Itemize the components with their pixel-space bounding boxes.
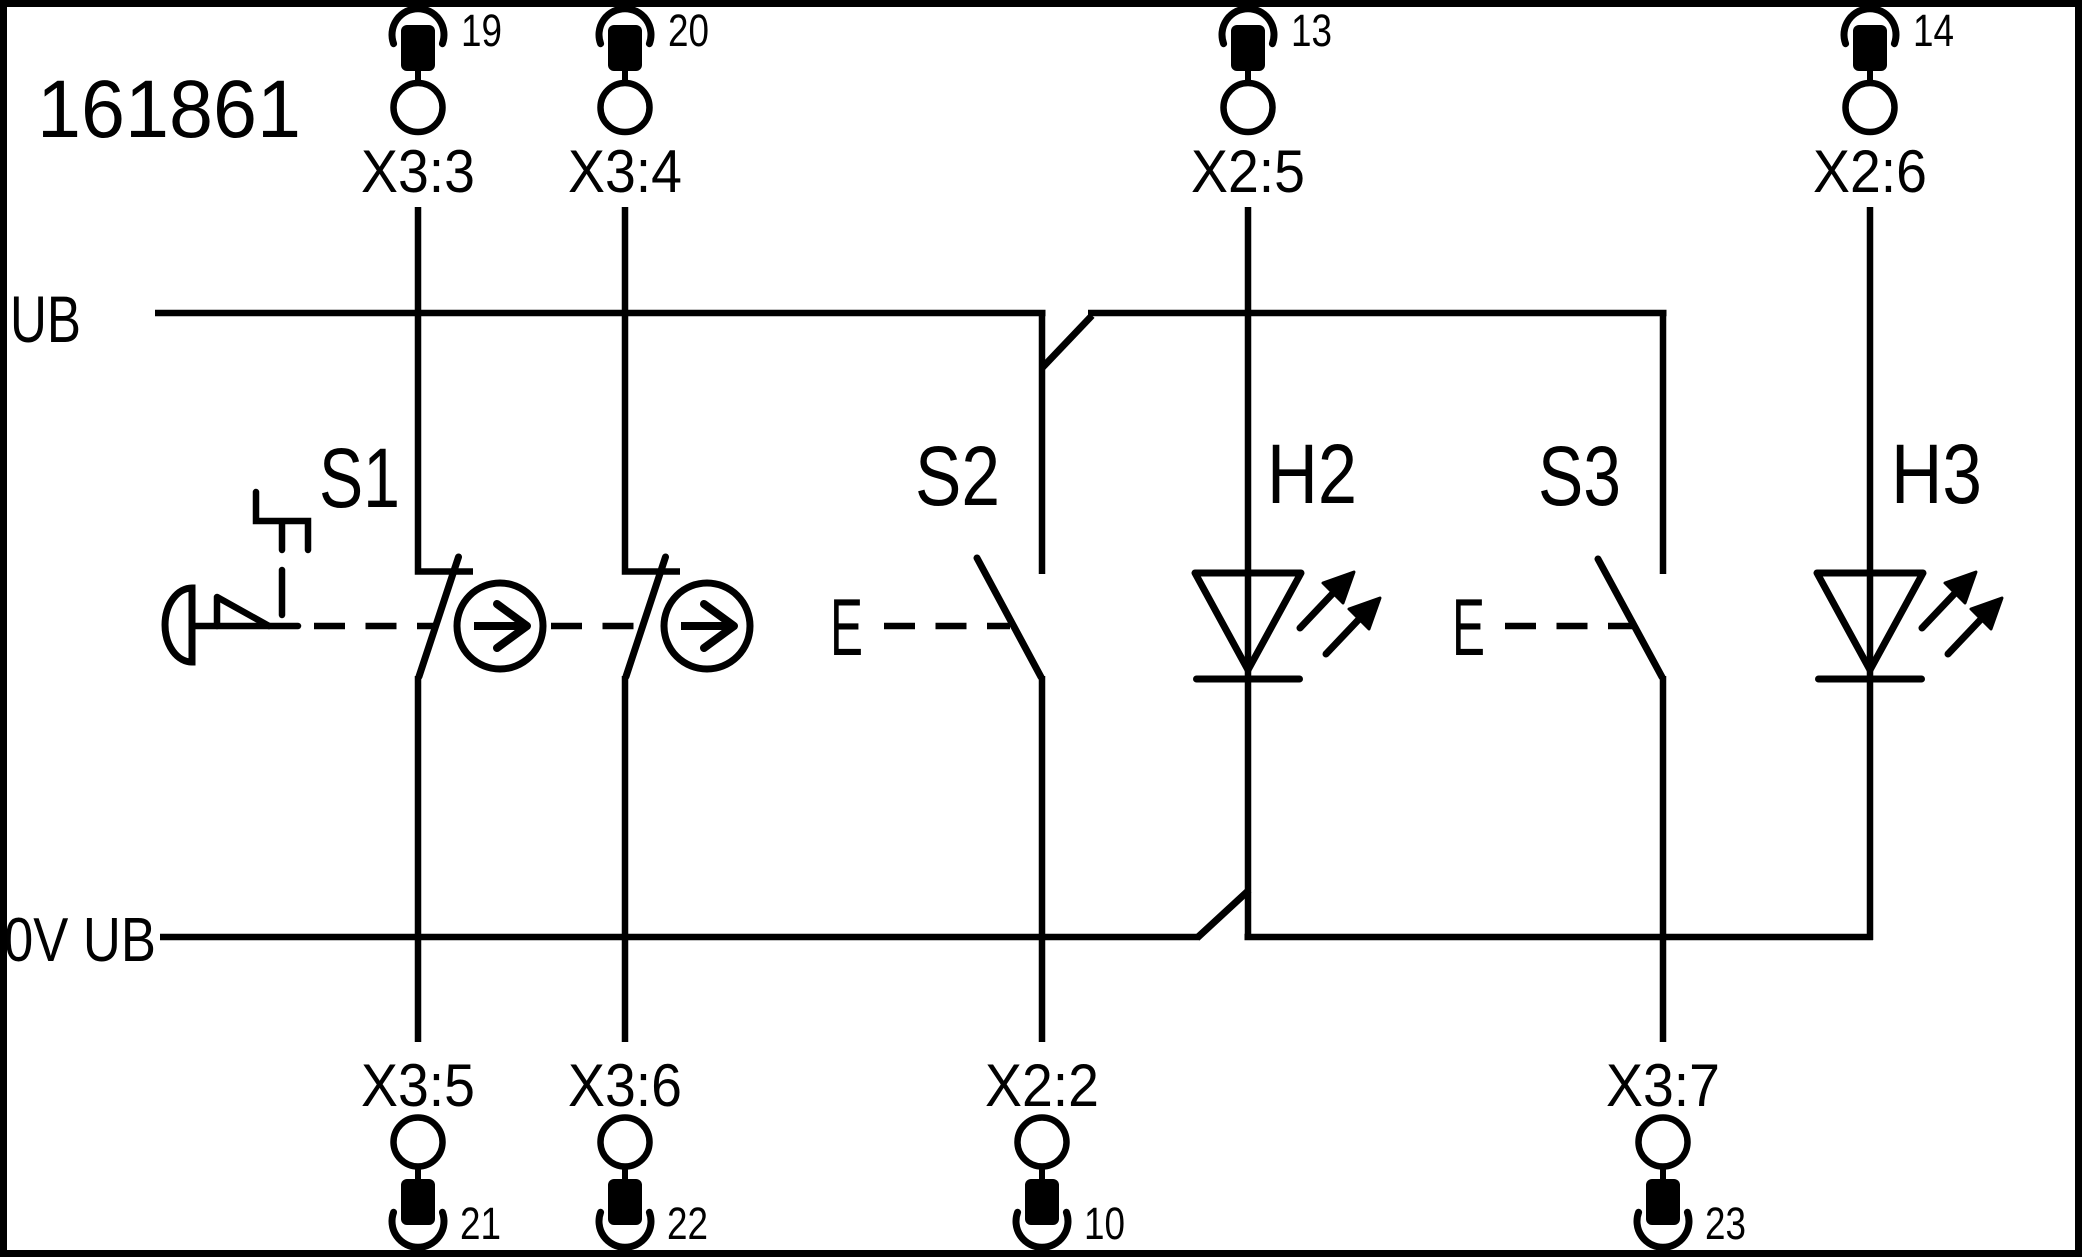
svg-text:E: E [830,583,863,673]
svg-text:0V UB: 0V UB [4,906,156,975]
S1 lever triangle [217,597,269,626]
terminal X3:4 clamp arc [599,9,651,44]
svg-text:X3:6: X3:6 [568,1052,682,1119]
wire S2 column lower to X2:2 [1039,676,1046,1042]
svg-text:H3: H3 [1891,427,1982,521]
terminal X3:5 link [415,1166,421,1180]
terminal X3:4 plug [608,25,642,71]
S1 linkage dash [279,570,286,615]
S1 indicator arrow 2 [681,622,730,630]
contact S1 second NC blade [626,557,666,677]
terminal X3:6 link [622,1166,628,1180]
lamp H2 emission arrow 1 [1300,590,1336,628]
terminal X2:5 top connector [1191,5,1332,205]
wire 0V UB rail left segment [160,934,1199,941]
svg-text:10: 10 [1084,1198,1125,1249]
contact S1 first NC blade [419,557,459,677]
svg-text:X3:7: X3:7 [1606,1052,1720,1119]
wire UB rail left segment [155,310,1046,317]
wire 0V UB rail right segment [1245,934,1874,941]
terminal X3:7 circle [1639,1118,1688,1167]
terminal X3:6 clamp arc [599,1212,651,1247]
wire column X3:4 upper [625,207,680,572]
svg-text:21: 21 [460,1198,501,1249]
S1 actuation dashed link b [551,623,642,630]
lamp H3 LED triangle [1817,573,1923,670]
lamp H2 cathode bar [1197,676,1300,683]
terminal X3:3 circle [394,83,443,132]
terminal X3:3 plug [401,25,435,71]
wire column X3:3 upper [418,207,473,572]
terminal X2:2 bottom connector [985,1052,1125,1249]
S1 roller half-disc [165,588,192,662]
terminal X2:5 clamp arc [1222,9,1274,44]
wire S3 column lower to X3:7 [1660,676,1667,1042]
svg-text:S2: S2 [915,429,1000,523]
lamp H2 emission arrow 2 [1326,616,1362,654]
S1 actuation dashed link a [314,623,436,630]
terminal X3:4 top connector [568,5,709,205]
wire S3 column upper drop from UB [1660,313,1667,574]
svg-text:S1: S1 [319,431,400,525]
terminal X3:5 clamp arc [392,1212,444,1247]
svg-text:X2:5: X2:5 [1191,138,1305,205]
wire S2 column upper drop from UB [1039,313,1046,574]
wire UB rail right segment [1088,310,1667,317]
svg-text:13: 13 [1291,5,1332,56]
S1 positive-drive indicator circle 1 [457,583,543,669]
terminal X3:5 circle [394,1118,443,1167]
terminal X2:2 plug [1025,1179,1059,1225]
svg-text:X3:5: X3:5 [361,1052,475,1119]
svg-text:X2:6: X2:6 [1813,138,1927,205]
lamp H3 cathode bar [1819,676,1922,683]
svg-text:23: 23 [1705,1198,1746,1249]
svg-text:20: 20 [668,5,709,56]
S1 detent linkage [256,492,308,550]
terminal X3:4 circle [601,83,650,132]
terminal X2:6 circle [1846,83,1895,132]
terminal X2:2 link [1039,1166,1045,1180]
terminal X3:7 plug [1646,1179,1680,1225]
terminal X2:5 circle [1224,83,1273,132]
terminal X2:2 clamp arc [1016,1212,1068,1247]
svg-text:UB: UB [10,282,81,356]
terminal X3:7 bottom connector [1606,1052,1746,1249]
terminal X3:6 circle [601,1118,650,1167]
wire column X3:3 lower [415,676,422,1042]
svg-text:161861: 161861 [37,64,301,155]
svg-text:E: E [1452,583,1485,673]
terminal X3:5 bottom connector [361,1052,501,1249]
svg-text:X3:3: X3:3 [361,138,475,205]
terminal X2:5 link [1245,70,1251,83]
S3 actuation dashed link [1505,623,1634,630]
terminal X2:5 plug [1231,25,1265,71]
terminal X2:6 link [1867,70,1873,83]
wire 0V UB crossover diagonal [1197,890,1249,938]
terminal X3:6 bottom connector [568,1052,708,1249]
terminal X3:6 plug [608,1179,642,1225]
terminal X2:6 top connector [1813,5,1954,205]
svg-text:X3:4: X3:4 [568,138,682,205]
contact S2 NO blade [977,558,1041,677]
S1 indicator arrow 1 [474,622,523,630]
svg-text:22: 22 [667,1198,708,1249]
svg-text:X2:2: X2:2 [985,1052,1099,1119]
terminal X2:2 circle [1018,1118,1067,1167]
contact S3 NO blade [1598,559,1662,677]
terminal X3:3 clamp arc [392,9,444,44]
wire column X3:4 lower [622,676,629,1042]
S1 positive-drive indicator circle 2 [664,583,750,669]
wire H3 column X2:6 [1867,207,1874,940]
svg-text:19: 19 [461,5,502,56]
terminal X3:7 clamp arc [1637,1212,1689,1247]
terminal X3:3 link [415,70,421,83]
svg-text:S3: S3 [1538,429,1621,523]
lamp H3 emission arrow 2 [1948,616,1984,654]
wire UB crossover diagonal [1042,316,1092,369]
terminal X3:4 link [622,70,628,83]
svg-text:H2: H2 [1267,427,1357,521]
terminal X3:7 link [1660,1166,1666,1180]
lamp H2 LED triangle [1195,573,1301,670]
terminal X2:6 clamp arc [1844,9,1896,44]
terminal X2:6 plug [1853,25,1887,71]
S2 actuation dashed link [884,623,1010,630]
terminal X3:3 top connector [361,5,502,205]
svg-text:14: 14 [1913,5,1954,56]
terminal X3:5 plug [401,1179,435,1225]
lamp H3 emission arrow 1 [1922,590,1958,628]
S1 lever line [192,623,298,630]
wire H2 column X2:5 [1245,207,1252,937]
